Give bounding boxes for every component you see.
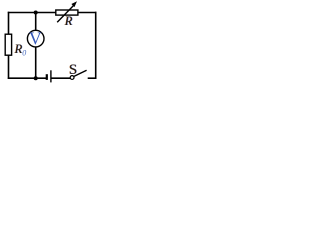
wire voltmeter top lead xyxy=(35,13,37,31)
svg-text:R: R xyxy=(64,14,73,28)
svg-text:0: 0 xyxy=(22,49,26,58)
node junction bottom (voltmeter tap) xyxy=(34,76,38,80)
wire bottom-right segment xyxy=(88,77,97,79)
rheostat R box xyxy=(56,10,78,15)
wire bottom-left segment xyxy=(8,77,47,79)
background xyxy=(0,0,100,90)
node junction top (voltmeter tap) xyxy=(34,11,38,15)
switch S pivot xyxy=(70,76,74,80)
wire top-left segment xyxy=(8,12,56,14)
wire top-right segment xyxy=(78,12,97,14)
battery cell positive plate xyxy=(50,70,52,82)
wire battery to switch xyxy=(51,77,71,79)
resistor R0 box xyxy=(5,34,11,55)
wire left side upper xyxy=(8,12,10,35)
wire voltmeter bottom lead xyxy=(35,47,37,79)
battery cell negative plate xyxy=(46,74,48,80)
wire left side lower xyxy=(8,55,10,79)
svg-text:S: S xyxy=(69,62,77,78)
wire right side xyxy=(95,12,97,79)
voltmeter V xyxy=(27,30,44,47)
switch S lever xyxy=(74,70,87,76)
svg-text:V: V xyxy=(29,29,42,49)
rheostat arrow xyxy=(57,5,74,22)
